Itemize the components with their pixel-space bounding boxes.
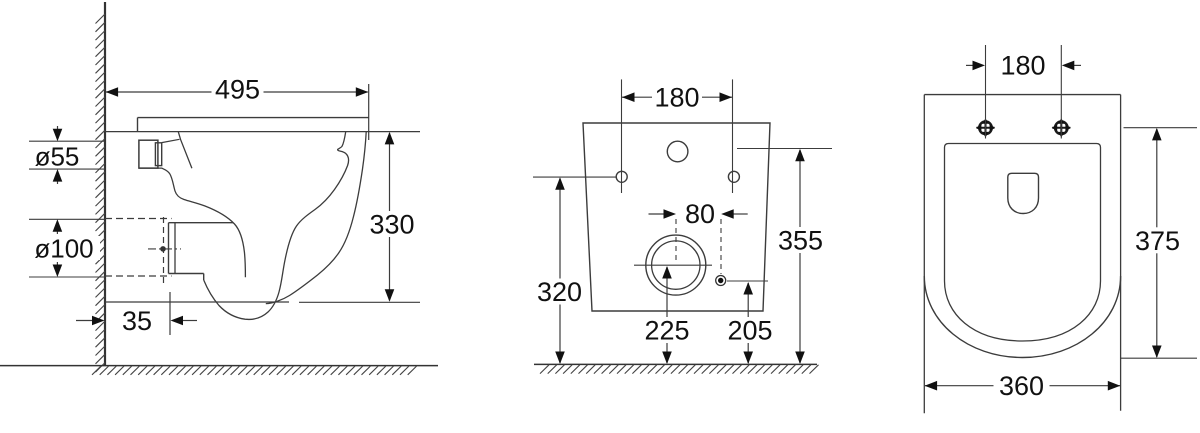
svg-text:355: 355	[778, 226, 823, 256]
left mounting hole	[616, 171, 627, 182]
bowl bottom and inner front curve	[204, 132, 349, 320]
dimension 330 (height)	[367, 132, 417, 302]
seat lid top edge	[138, 117, 369, 119]
flush funnel top line	[162, 139, 180, 142]
outlet socket flange line	[174, 223, 176, 274]
dimension 225 (outlet height)	[641, 266, 693, 364]
rear body outline (trapezoid)	[583, 123, 770, 311]
dimension 320 (hole height)	[533, 177, 616, 364]
right bolt symbol	[1052, 118, 1071, 137]
dimension 360 (top view width)	[925, 371, 1121, 401]
wall line (side view)	[104, 2, 106, 366]
right bolt extension line	[1060, 45, 1062, 139]
top view left edge line	[923, 95, 925, 414]
seat inner outline	[945, 144, 1101, 342]
svg-text:ø100: ø100	[34, 234, 93, 264]
outlet socket left edge	[168, 223, 170, 274]
dimension &#248;100 (outlet diameter)	[28, 219, 105, 277]
dimension &#248;55 (inlet diameter)	[29, 126, 105, 184]
floor hatching (rear view)	[540, 365, 819, 374]
dashed outlet pipe top	[105, 218, 172, 220]
outlet socket bottom line	[169, 273, 204, 275]
outlet socket step	[203, 274, 205, 281]
left 180 extension line	[621, 79, 623, 193]
top view top edge	[924, 94, 1120, 96]
svg-text:360: 360	[999, 371, 1044, 401]
floor line (side view)	[0, 365, 438, 367]
flush water spot	[1008, 173, 1039, 213]
floor hatching (side view)	[92, 366, 417, 375]
lid right edge / 495 extension line	[368, 84, 370, 140]
outlet outer circle	[646, 235, 706, 295]
water inlet circle	[667, 141, 688, 162]
left bolt extension line	[985, 45, 987, 139]
bowl outer shell curve	[266, 132, 366, 304]
svg-text:330: 330	[369, 210, 414, 240]
inlet connector box	[139, 140, 158, 168]
top view right edge line	[1120, 95, 1122, 411]
dashed outlet pipe end	[163, 217, 165, 283]
dimension 35 (outlet offset)	[76, 292, 197, 336]
floor line (rear view)	[534, 363, 817, 365]
dimension 180 (top view bolts)	[966, 51, 1081, 81]
inlet connector inner sleeve	[155, 143, 161, 166]
right mounting hole	[728, 171, 739, 182]
seat underside line (wall to 330 extension)	[105, 131, 420, 133]
dimension 355 (inlet height)	[737, 149, 832, 365]
svg-text:205: 205	[727, 316, 772, 346]
bowl back outline	[139, 168, 246, 277]
dimension 495 (top width)	[106, 75, 369, 105]
svg-text:225: 225	[644, 316, 689, 346]
right 180 extension line	[732, 79, 734, 193]
flush funnel diagonal	[178, 132, 192, 169]
outlet inner circle	[652, 241, 700, 289]
top view bowl outer curve	[924, 276, 1120, 358]
svg-text:495: 495	[215, 75, 260, 105]
left bolt symbol	[976, 118, 995, 137]
svg-text:ø55: ø55	[35, 142, 80, 172]
fixing screw dot	[716, 276, 726, 286]
svg-text:180: 180	[1000, 51, 1045, 81]
svg-text:80: 80	[685, 199, 715, 229]
fixing dot extension line	[727, 280, 768, 282]
svg-text:320: 320	[537, 277, 582, 307]
dimension 180 (mounting holes spacing)	[622, 83, 732, 113]
bottom reference line	[105, 301, 289, 303]
outlet horizontal centerline	[634, 264, 712, 266]
svg-text:180: 180	[654, 83, 699, 113]
outlet centerline	[148, 246, 181, 252]
svg-text:375: 375	[1135, 226, 1180, 256]
svg-text:35: 35	[122, 306, 152, 336]
seat lid left edge	[137, 118, 139, 132]
wall hatching	[96, 14, 106, 372]
dashed outlet pipe bottom	[105, 275, 172, 277]
dashed line fixing dot	[720, 219, 722, 274]
outlet socket top line	[169, 222, 234, 224]
dashed line outlet center	[675, 219, 677, 261]
dimension 205 (fixing height)	[724, 282, 776, 364]
dimension 375 (top view depth)	[1121, 128, 1197, 359]
dimension 80 (outlet to fixing)	[649, 199, 748, 229]
330 bottom extension line	[299, 301, 420, 303]
